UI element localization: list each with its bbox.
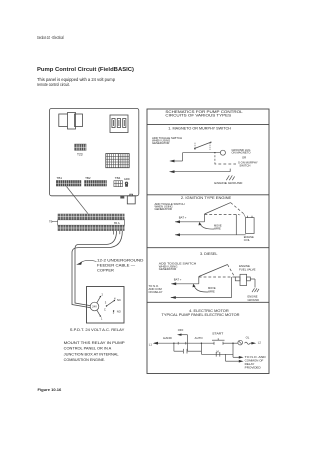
svg-text:FUEL VALVE: FUEL VALVE — [239, 267, 256, 271]
svg-text:NC: NC — [117, 298, 121, 302]
svg-text:GENERATOR: GENERATOR — [159, 267, 177, 271]
svg-text:+: + — [239, 214, 241, 217]
svg-text:BAT +: BAT + — [179, 216, 187, 220]
svg-text:ON MAGNETO: ON MAGNETO — [232, 151, 252, 155]
svg-text:2: 2 — [102, 293, 104, 297]
svg-text:5: 5 — [113, 311, 115, 315]
svg-text:Section 10 - Electrical: Section 10 - Electrical — [37, 35, 64, 41]
svg-text:MOVE: MOVE — [208, 286, 216, 290]
svg-text:OFF: OFF — [178, 328, 184, 332]
svg-text:TB4: TB4 — [115, 176, 121, 180]
svg-text:COPPER: COPPER — [97, 268, 115, 272]
svg-text:CONTROL PANEL OR IN A: CONTROL PANEL OR IN A — [64, 347, 113, 351]
svg-text:T23: T23 — [77, 153, 83, 157]
svg-text:L1: L1 — [149, 342, 153, 346]
svg-text:OL: OL — [246, 335, 250, 339]
svg-text:JUNCTION BOX AT INTERNAL: JUNCTION BOX AT INTERNAL — [64, 352, 119, 356]
svg-text:remote control circuit.: remote control circuit. — [37, 82, 70, 88]
svg-text:1. MAGNETO OR MURPHY SWITCH: 1. MAGNETO OR MURPHY SWITCH — [168, 127, 231, 131]
svg-text:GENERATOR: GENERATOR — [152, 141, 169, 145]
svg-text:TYPICAL PUMP PANEL ELECTRIC MO: TYPICAL PUMP PANEL ELECTRIC MOTOR — [162, 313, 241, 317]
svg-text:COIL: COIL — [244, 238, 251, 242]
svg-text:FEEDER CABLE —: FEEDER CABLE — — [97, 263, 136, 267]
svg-text:WIRE: WIRE — [214, 226, 221, 230]
svg-text:AUTO: AUTO — [195, 336, 204, 340]
svg-text:3. DIESEL: 3. DIESEL — [200, 252, 218, 256]
svg-text:COMBUSTION ENGINE.: COMBUSTION ENGINE. — [64, 358, 106, 362]
svg-text:START: START — [212, 331, 224, 335]
svg-text:C: C — [104, 307, 106, 311]
svg-text:NO: NO — [117, 309, 121, 313]
svg-text:OR: OR — [242, 156, 246, 160]
svg-text:Pump Control Circuit (FieldBAS: Pump Control Circuit (FieldBASIC) — [37, 67, 134, 73]
svg-text:65 A: 65 A — [114, 221, 120, 225]
svg-text:GRD: GRD — [124, 177, 130, 181]
svg-text:TB1: TB1 — [57, 176, 63, 180]
svg-text:HAND: HAND — [163, 336, 172, 340]
svg-text:CIRCUITS OF VARIOUS TYPES: CIRCUITS OF VARIOUS TYPES — [165, 114, 232, 118]
svg-text:GENERATOR: GENERATOR — [155, 207, 172, 211]
svg-text:BAT +: BAT + — [174, 277, 182, 281]
svg-text:GROUND: GROUND — [248, 298, 260, 302]
svg-text:WIRE: WIRE — [208, 290, 215, 294]
svg-text:SWITCH: SWITCH — [239, 163, 250, 167]
svg-text:TB: TB — [49, 220, 53, 224]
svg-text:S.P.D.T. 24 VOLT A.C. RELAY: S.P.D.T. 24 VOLT A.C. RELAY — [70, 328, 126, 332]
svg-text:3: 3 — [105, 301, 107, 305]
svg-text:MOUNT THIS RELAY IN PUMP: MOUNT THIS RELAY IN PUMP — [64, 341, 125, 345]
svg-text:ON RELAY: ON RELAY — [149, 290, 163, 294]
svg-text:4: 4 — [114, 296, 116, 300]
svg-text:2. IGNITION TYPE ENGINE: 2. IGNITION TYPE ENGINE — [181, 196, 231, 200]
svg-text:M: M — [217, 350, 219, 354]
svg-text:24V: 24V — [92, 305, 97, 309]
svg-text:1: 1 — [101, 316, 103, 320]
svg-text:Figure 10.16: Figure 10.16 — [38, 387, 63, 392]
svg-text:ENGINE GROUND: ENGINE GROUND — [214, 181, 242, 185]
svg-text:12-2 UNDERGROUND: 12-2 UNDERGROUND — [97, 258, 144, 262]
svg-text:PROVIDED: PROVIDED — [245, 365, 261, 369]
svg-text:L2: L2 — [258, 341, 262, 345]
svg-text:TB2: TB2 — [85, 176, 91, 180]
